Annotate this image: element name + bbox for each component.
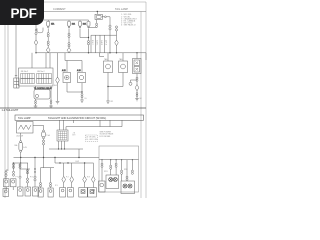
component L2 box (121, 181, 135, 194)
wire from fuse F2 (68, 28, 70, 33)
connector pair 2 on x48.2 (47, 41, 49, 43)
wire from connector x130.5 (131, 80, 138, 82)
tick on wire x16 (15, 75, 17, 77)
svg-text:G-W: G-W (23, 147, 27, 149)
svg-text:IG: IG (85, 98, 88, 100)
wire x88.5 to bus (88, 45, 90, 53)
bus right drop at border (145, 53, 147, 60)
relay R2 (34, 90, 50, 100)
svg-text:IH5: IH5 (54, 85, 57, 87)
svg-text:A14 SW: A14 SW (17, 134, 24, 137)
PDF badge (0, 0, 44, 25)
internal bus (99, 159, 139, 161)
harness duct (37, 28, 43, 33)
comb drop 2 (95, 35, 97, 53)
component B1 (104, 61, 113, 73)
connector pair x82 (81, 94, 83, 96)
svg-text:R 8: R 8 (87, 177, 90, 179)
relay R1 (95, 14, 102, 19)
wire to fuse F3 (89, 26, 97, 28)
connector circle 2 x36 (35, 33, 37, 35)
connector circle x130.5 (129, 82, 132, 85)
component M1 (63, 73, 71, 83)
connector pair x96.6 (96, 23, 98, 25)
svg-text:A 22: A 22 (62, 69, 66, 72)
svg-text:B-W: B-W (76, 161, 80, 163)
connector pair on x48.2 (47, 33, 49, 35)
fuse F2 (68, 20, 71, 28)
JB1 left grid cells (21, 74, 52, 84)
connector circle x36 (35, 29, 37, 31)
connector circle on wire (105, 16, 107, 18)
svg-text:B 9: B 9 (73, 135, 76, 137)
svg-text:IF1: IF1 (111, 101, 114, 103)
svg-text:FOR DETAIL: FOR DETAIL (100, 135, 111, 138)
wire from S1 bottom (20, 133, 22, 141)
wire below B3 (136, 74, 138, 78)
wire from S1 right (33, 125, 44, 130)
tiny labels bottom (14, 134, 127, 187)
box LB3 (79, 188, 88, 198)
banner box (15, 115, 144, 120)
wire to x110 (106, 17, 110, 25)
mid diamond feed (57, 53, 59, 77)
svg-text:15A: 15A (51, 23, 55, 26)
junction dot (107, 86, 108, 87)
svg-text:J/B No.2: J/B No.2 (37, 71, 46, 73)
connector pair x137 (136, 77, 138, 79)
wire below F5 (20, 152, 22, 157)
svg-text:TAIL: TAIL (119, 58, 123, 61)
junction dot M1/M2 (81, 91, 82, 92)
splice diamond x36 (34, 40, 38, 45)
mid feed jog (65, 53, 82, 72)
svg-text:IH: IH (140, 98, 143, 100)
box LB2 (68, 188, 74, 198)
wire x48.2 mid (47, 37, 49, 41)
svg-text:TAIL LAMP: TAIL LAMP (18, 117, 31, 120)
ground G4 (80, 98, 84, 103)
right trio feeds (100, 53, 105, 57)
svg-text:10A: 10A (72, 23, 76, 26)
comb drop 3 (99, 35, 101, 53)
lamp box LL2 (11, 179, 17, 187)
wire from fuse F1 (47, 28, 49, 32)
connector pair x116.5 (115, 26, 117, 28)
page border right inner (140, 12, 142, 199)
note text block right top (121, 14, 138, 27)
connector pair on x69 (68, 33, 70, 35)
connector pair x137 low (136, 93, 138, 95)
junction dots on bus (35, 52, 137, 53)
drop x102 (101, 160, 103, 163)
junction connector block JB1 (19, 68, 54, 86)
svg-text:TAIL LAMP: TAIL LAMP (115, 7, 128, 11)
wire x137 to splice (136, 81, 138, 84)
wire x13.5 (13, 164, 15, 172)
ground G5 (135, 96, 139, 101)
fuse F3 (79, 20, 82, 28)
wire x69 to splice (68, 46, 70, 49)
component L0 (99, 181, 106, 192)
component M2 (78, 73, 86, 83)
box LB4 (88, 188, 97, 198)
wire x27.5 (27, 163, 29, 178)
svg-text:L-R 4: L-R 4 (104, 40, 106, 45)
box LL3 (18, 187, 24, 196)
wire below J2 (57, 83, 59, 101)
wire below B2 joining B1 (108, 73, 123, 87)
comb tiny labels (91, 40, 107, 45)
legend dashed box (86, 135, 98, 142)
wire x110 lower (109, 30, 111, 53)
big box right (99, 146, 139, 192)
junction connector block JB2 (57, 130, 68, 141)
mid feed drop (66, 61, 68, 73)
fuse F4 (87, 20, 90, 28)
wire below F4 (43, 139, 45, 140)
wire below M1 (67, 83, 82, 92)
splice diamond x69 (67, 48, 71, 53)
svg-text:CURRENT: CURRENT (53, 7, 66, 11)
ground G6 (106, 99, 110, 103)
svg-text:1-2 TAILLIGHT: 1-2 TAILLIGHT (2, 109, 19, 112)
main bus y52 (36, 52, 146, 54)
connector pair on x88.5 (87, 40, 89, 42)
connector pair x43.5 (42, 140, 44, 142)
svg-text:F 7: F 7 (16, 177, 19, 179)
bottom-left wires (6, 170, 8, 171)
grid feed 3 (49, 53, 51, 68)
splice diamond J1 (115, 40, 119, 46)
wire x116.5 (116, 31, 118, 40)
collector wire to JB2 (66, 127, 122, 130)
x43.5 lower chain (43, 158, 45, 168)
splice diamond x48.2 (46, 47, 50, 52)
wire left x16 (15, 25, 17, 79)
junction dot R1 stub (97, 11, 98, 12)
box LB0 (48, 188, 53, 197)
connector pair x51 (50, 100, 52, 102)
page border right outer (145, 2, 147, 198)
JB1 right grid cells (37, 74, 52, 84)
wire from badge x36 (35, 25, 37, 29)
wire below B1 (107, 73, 109, 100)
svg-text:7.5A: 7.5A (46, 134, 50, 137)
svg-text:10A: 10A (83, 23, 87, 26)
page border left inner wire (7, 24, 9, 171)
box LL5 (33, 187, 39, 196)
box LB0a (38, 188, 43, 197)
JB2 outputs (58, 141, 60, 149)
wire JB1 right down (50, 86, 52, 100)
junction x35 (34, 158, 36, 177)
svg-text:6 : SEE PAGE 22: 6 : SEE PAGE 22 (121, 24, 136, 27)
wire below J1 (116, 46, 118, 53)
switch S1 (17, 122, 34, 134)
banner stubs / JB2 feeds (59, 120, 61, 130)
wire below J3 (136, 91, 138, 93)
svg-text:RR2: RR2 (124, 169, 128, 171)
splice diamond J3 (135, 85, 139, 91)
wire x36 mid (35, 35, 37, 40)
wire x48.2 lower (47, 46, 49, 48)
drop x84.6 (84, 163, 86, 176)
sub bus y149 (49, 148, 83, 150)
wire x69 lower (68, 38, 70, 43)
splice diamond J2 (56, 77, 60, 83)
connector pair on x110 (109, 25, 111, 27)
comb header line (91, 34, 117, 36)
component L1 box (106, 175, 119, 189)
connector pair x35.5 (35, 100, 37, 102)
svg-text:A 23: A 23 (77, 69, 81, 72)
svg-text:R-L 2: R-L 2 (91, 40, 93, 45)
page outer top line (44, 1, 146, 3)
relay R1 right wire (102, 16, 104, 18)
drop x63.7 (63, 163, 65, 176)
junction dot x88.5 (88, 37, 89, 38)
relay R1 bottom wire (96, 20, 98, 24)
grid feed 1 (31, 53, 33, 68)
fuse F4 (42, 130, 46, 139)
page border left outer (4, 12, 6, 199)
svg-text:20A: 20A (14, 144, 18, 147)
bus4 (14, 157, 100, 159)
drop x110.7 (110, 160, 112, 165)
wire x20 (19, 163, 21, 176)
component B3 double cell (133, 59, 142, 74)
svg-text:B : W/O DRL: B : W/O DRL (87, 139, 98, 141)
svg-text:TAIL: TAIL (104, 58, 108, 61)
box LL1b (3, 189, 9, 197)
svg-text:RR1: RR1 (104, 171, 108, 173)
small labels mid (54, 58, 142, 103)
fuse F1 (47, 20, 50, 28)
svg-text:J/B No.2: J/B No.2 (21, 71, 30, 73)
comb drop 1 (90, 35, 92, 53)
svg-text:G-W 1: G-W 1 (95, 40, 97, 45)
fuse F5 (19, 141, 23, 153)
JB2 cells (58, 131, 67, 140)
bus5 (55, 162, 94, 164)
wire below M2 (81, 83, 83, 94)
drop x127 (126, 160, 128, 176)
component B2 (119, 61, 128, 73)
box LL4 (25, 187, 31, 196)
wire from fuse F3 (80, 28, 89, 37)
drop x71.7 (71, 163, 73, 176)
section divider (0, 107, 146, 109)
connector pair 2 on x69 (68, 43, 70, 45)
comb drop 4 (104, 35, 106, 53)
grid feed 2 (45, 53, 47, 68)
svg-text:TAILLIGHT AND ILLUMINATION CIR: TAILLIGHT AND ILLUMINATION CIRCUIT (W/ D… (48, 117, 106, 120)
bottom-left sub bus (13, 162, 29, 164)
ground G2 (49, 104, 53, 107)
wire JB1 to relay box (35, 86, 37, 90)
drop x121.6 (121, 160, 123, 170)
svg-text:F 8: F 8 (30, 177, 33, 179)
connector box left (14, 78, 19, 88)
wire x36 lower (35, 45, 37, 53)
top frame line (5, 11, 146, 13)
relay R2 ground wire (35, 99, 37, 101)
ground G1 (34, 104, 38, 107)
box LB1 (60, 188, 66, 198)
svg-text:P 2: P 2 (66, 177, 69, 179)
drop x116.1 (115, 160, 117, 163)
svg-text:R 5: R 5 (55, 185, 58, 187)
lamp box LL1 (4, 179, 10, 187)
wire x43.5 to bus (43, 145, 45, 158)
wire from fuse F4 (88, 28, 90, 40)
svg-text:G-B 3: G-B 3 (100, 40, 102, 45)
ground G3 (56, 102, 60, 104)
drop x132.4 (131, 160, 133, 170)
top fuse bus (44, 19, 89, 21)
relay R1 top stub (96, 12, 98, 15)
drop x93.3 (92, 163, 94, 176)
